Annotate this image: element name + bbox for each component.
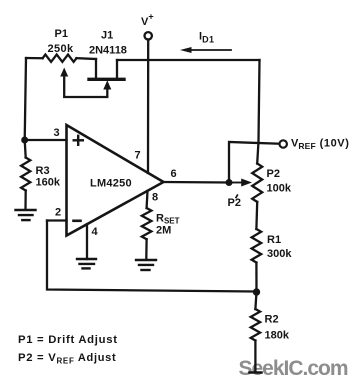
wire P1 to J1 drain <box>76 57 96 60</box>
wire output node up to VREF line <box>229 142 279 183</box>
resistor R1 body <box>252 229 262 263</box>
svg-text:J1: J1 <box>101 30 113 42</box>
svg-text:300k: 300k <box>267 248 292 260</box>
wire feedback left vertical <box>47 221 257 292</box>
wire pin 8 <box>145 191 148 208</box>
wire V+ to pin 7 <box>147 40 149 174</box>
wire pin 4 <box>86 224 88 259</box>
terminator bar below R2 <box>250 371 262 374</box>
svg-text:8: 8 <box>152 192 158 204</box>
node junction dot R1/R2 feedback <box>253 288 260 295</box>
wire top-left horizontal <box>26 57 43 60</box>
arrow P1 wiper <box>60 68 68 77</box>
potentiometer P2 body <box>252 164 262 202</box>
terminal VREF circle <box>280 140 287 147</box>
wire RSET bottom <box>145 239 148 259</box>
ground below RSET <box>136 260 156 270</box>
wire P1 wiper to J1 gate <box>64 76 107 97</box>
svg-text:250k: 250k <box>48 43 75 55</box>
wire left vertical <box>25 58 26 140</box>
minus sign inverting input <box>74 220 81 223</box>
op-amp U1 triangle <box>67 125 164 236</box>
transistor J1 drain lead <box>95 59 97 79</box>
plus sign noninverting input <box>74 136 83 145</box>
transistor J1 channel bar <box>89 78 124 81</box>
wire R3 top <box>25 140 26 158</box>
wire pin 3 <box>25 139 67 141</box>
svg-text:160k: 160k <box>36 177 61 189</box>
svg-text:P2: P2 <box>228 197 241 209</box>
svg-text:2N4118: 2N4118 <box>89 45 127 57</box>
svg-text:6: 6 <box>171 168 177 180</box>
potentiometer P1 body <box>43 55 77 62</box>
wire pin 2 <box>47 219 67 221</box>
svg-text:2: 2 <box>55 207 61 219</box>
svg-text:R3: R3 <box>36 165 50 177</box>
wire output pin 6 <box>164 181 230 184</box>
wire R2 bottom <box>254 341 256 372</box>
resistor R2 body <box>251 309 260 341</box>
svg-text:100k: 100k <box>267 183 292 195</box>
svg-text:3: 3 <box>54 127 60 139</box>
arrow current ID1 <box>189 49 231 51</box>
wire P2 to R1 <box>255 202 258 229</box>
arrow P2 wiper <box>229 182 243 184</box>
resistor RSET body <box>142 208 152 239</box>
svg-text:R1: R1 <box>267 234 281 246</box>
svg-text:P1 = Drift Adjust: P1 = Drift Adjust <box>18 334 118 346</box>
svg-text:7: 7 <box>135 150 141 162</box>
wire R3 bottom <box>24 191 27 210</box>
svg-text:P1: P1 <box>55 28 68 40</box>
svg-text:P2: P2 <box>267 168 280 180</box>
wire R1 to junction <box>255 263 257 293</box>
svg-text:180k: 180k <box>265 330 290 342</box>
svg-text:4: 4 <box>92 226 99 238</box>
arrow J1 gate <box>103 80 111 89</box>
wire junction to R2 <box>255 292 256 309</box>
wire right branch vertical <box>257 60 259 164</box>
svg-text:R2: R2 <box>265 314 279 326</box>
terminal V+ circle <box>145 32 152 39</box>
svg-text:2M: 2M <box>156 225 171 237</box>
wire top right horizontal <box>117 59 260 61</box>
transistor J1 source lead <box>116 60 118 79</box>
node junction dot P2 wiper <box>226 179 233 186</box>
ground below pin 4 <box>77 259 96 268</box>
node junction dot left (R3 / pin3) <box>21 137 28 144</box>
resistor R3 body <box>21 158 30 191</box>
svg-text:LM4250: LM4250 <box>90 178 132 190</box>
ground below R3 <box>16 210 36 220</box>
